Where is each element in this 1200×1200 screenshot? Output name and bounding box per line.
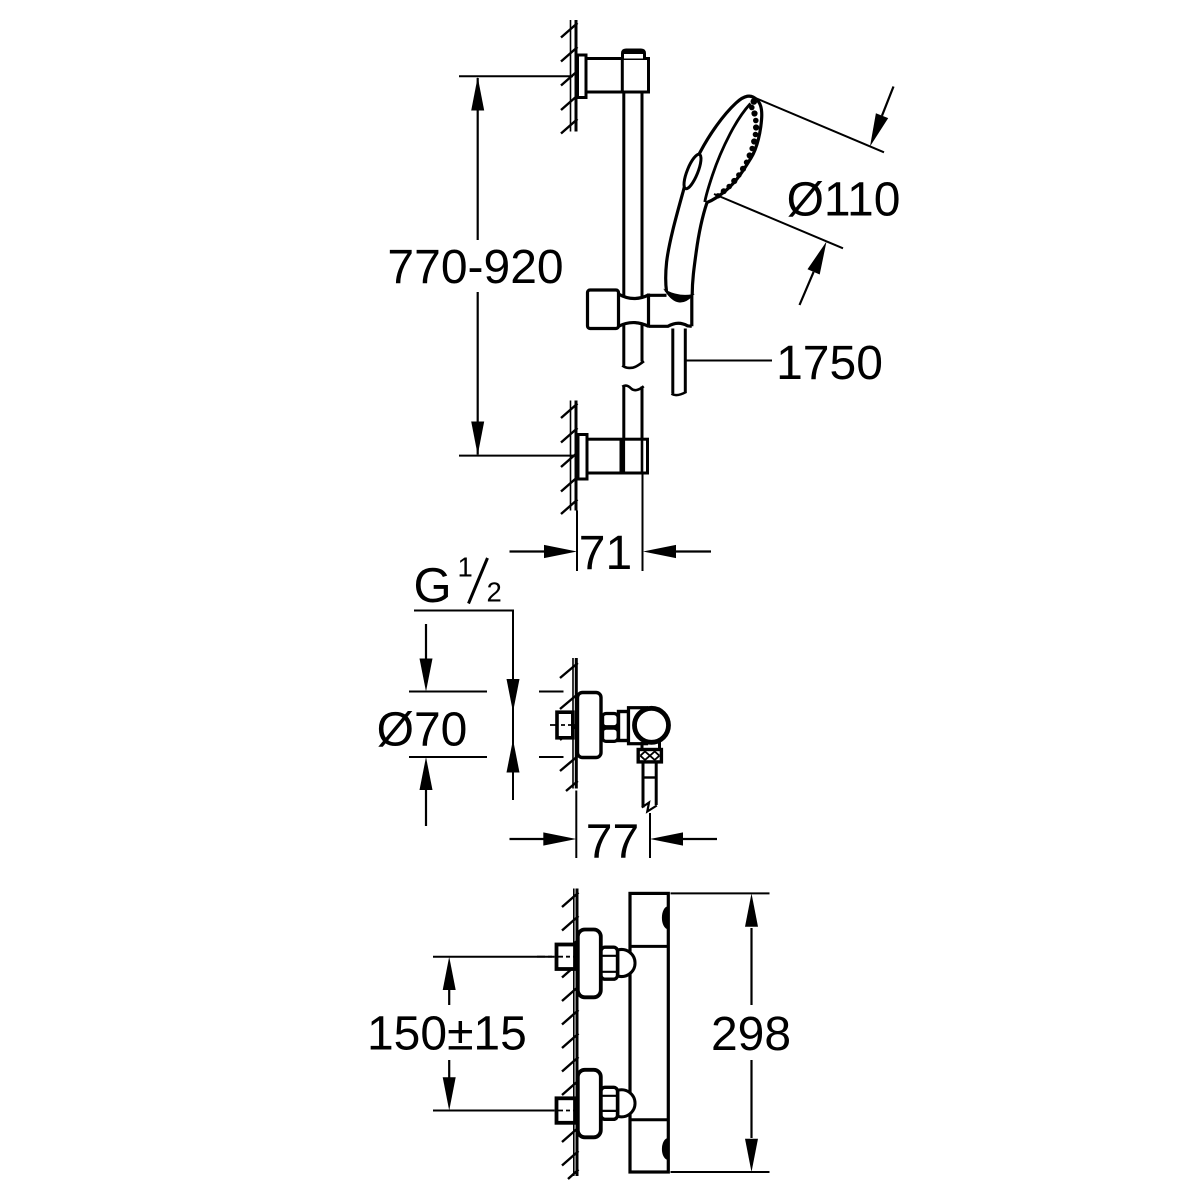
wall middle (thick line) <box>575 658 578 789</box>
rail upper wavy break <box>622 361 644 368</box>
dim D110: upper arrow <box>882 87 894 116</box>
dim 770-920: up arrow <box>471 77 484 111</box>
svg-text:71: 71 <box>579 527 632 580</box>
dim 770-920: dimension line <box>477 78 479 240</box>
dim 150+-15: dimension line <box>448 989 450 1005</box>
dim 770-920: bottom extension line <box>459 455 573 457</box>
dim D110: lower arrow <box>800 272 814 305</box>
top connection: escutcheon <box>578 930 601 998</box>
dim 770-920: top extension line <box>459 75 573 77</box>
dim 298: top extension line <box>671 892 770 894</box>
outlet nut with knurling <box>638 750 661 762</box>
holder: left block <box>588 290 619 329</box>
rail lower segment <box>622 387 625 440</box>
dim 770-920: down arrow <box>471 422 484 456</box>
supply nipple G1/2 in wall <box>557 712 573 738</box>
dim 150+-15: up arrow <box>443 957 456 990</box>
rail mount bottom: divider <box>620 439 623 473</box>
svg-text:77: 77 <box>586 816 639 869</box>
svg-text:298: 298 <box>711 1008 791 1061</box>
svg-text:1: 1 <box>458 552 473 583</box>
wall bottom hatching <box>562 893 579 1180</box>
top connection: supply square <box>557 945 576 970</box>
hose adapter <box>642 762 645 808</box>
escutcheon D70 <box>578 693 602 758</box>
dim 71: right arrow segment <box>674 550 711 552</box>
dim 298: down arrow <box>745 1139 758 1172</box>
union nut <box>602 714 618 727</box>
valve body <box>629 708 647 744</box>
G 1/2 up arrow <box>507 740 520 773</box>
dim 71: left arrow segment <box>510 550 547 552</box>
dim 77: left arrow segment <box>510 838 546 840</box>
wall top hatching <box>561 23 578 134</box>
body bottom-right crescent <box>663 1139 668 1159</box>
knob neck <box>641 742 644 750</box>
nipple centerline (dashed) <box>550 724 578 726</box>
wall middle hatching <box>560 663 578 791</box>
rail mount top: cap <box>623 50 645 59</box>
thermostat body <box>630 893 668 1172</box>
dim 77: right extension <box>649 813 651 858</box>
holder: right block <box>649 295 692 326</box>
svg-text:150±15: 150±15 <box>367 1008 527 1061</box>
rail upper segment <box>622 92 625 366</box>
hand shower: spray nozzles <box>715 98 759 198</box>
dim 150+-15: top extension line <box>433 956 555 958</box>
dim D70: bottom arrow line <box>425 789 427 826</box>
rail mount top: body <box>586 59 649 93</box>
hand shower: face inner rim line <box>705 104 751 203</box>
holder: divider <box>647 294 650 328</box>
hand shower: face outer edge and handle right edge <box>692 100 762 295</box>
rail mount bottom: body <box>587 439 648 473</box>
rail mount top: flange <box>578 55 587 98</box>
holder: handle cup crescent <box>666 291 692 301</box>
svg-text:1750: 1750 <box>776 337 883 390</box>
wall top (thick line) <box>575 20 578 132</box>
svg-text:Ø110: Ø110 <box>787 174 901 227</box>
top connection: centerline <box>537 956 578 958</box>
wall at bottom rail mount (thick line) <box>575 401 578 511</box>
leader G 1/2 <box>414 611 513 801</box>
rail mount bottom: flange <box>578 435 587 480</box>
bottom connection: supply square <box>557 1098 576 1123</box>
hose break <box>672 392 687 395</box>
bottom connection: escutcheon <box>578 1070 601 1138</box>
G 1/2 down arrow <box>507 679 520 712</box>
hand shower: mode button <box>681 152 705 190</box>
body top-right crescent <box>663 907 668 928</box>
rail mount top: divider <box>621 59 624 93</box>
dim 77: left extension <box>575 791 577 859</box>
svg-text:770-920: 770-920 <box>387 241 563 294</box>
hose adapter break <box>642 803 657 812</box>
dim 77: right arrow segment <box>681 838 717 840</box>
wall at bottom rail mount (thin line) <box>570 401 572 511</box>
dim 71: right extension <box>642 474 644 571</box>
valve connector <box>619 712 629 741</box>
svg-text:2: 2 <box>487 577 502 608</box>
wall bottom (thick line) <box>576 889 579 1177</box>
wall middle (thin line) <box>572 658 574 789</box>
shower hose <box>671 329 674 394</box>
holder: clamp white mask over rail <box>619 294 649 326</box>
top connection: dome <box>618 949 635 976</box>
wall bottom (thin line) <box>573 889 575 1177</box>
wall top (thin line) <box>570 20 572 132</box>
bottom connection: dome <box>618 1090 635 1117</box>
dim D110: extension line B <box>714 194 843 248</box>
body divider top <box>630 945 668 948</box>
dim D70: bottom extent line <box>409 756 487 758</box>
holder: clamp bottom arc <box>619 323 649 327</box>
wall bottom hatching <box>561 404 578 515</box>
leader 1750 <box>686 360 772 362</box>
svg-text:Ø70: Ø70 <box>377 704 468 757</box>
svg-text:G: G <box>414 559 452 613</box>
dim 150+-15: down arrow <box>443 1077 456 1110</box>
dim 298: dimension line <box>750 928 752 1005</box>
hand shower: back outline (head + handle left edge) <box>666 96 757 291</box>
body divider bottom <box>630 1118 668 1121</box>
dim D110: extension line A <box>753 97 884 152</box>
top connection: nut <box>601 947 618 979</box>
bottom connection: nut <box>601 1087 618 1119</box>
rail lower wavy break <box>622 386 643 391</box>
dim 298: up arrow <box>745 893 758 926</box>
dim 150+-15: bottom extension line <box>433 1110 555 1112</box>
dim D70: top arrow line <box>425 624 427 660</box>
dim 71: left extension <box>576 511 578 572</box>
valve knob (circle) <box>635 708 669 742</box>
holder: clamp top arc <box>619 294 649 299</box>
dim D70: top extent line <box>409 691 487 693</box>
bottom connection: centerline <box>537 1110 578 1112</box>
dim 298: bottom extension line <box>671 1171 770 1173</box>
rail passing through bottom mount <box>622 439 625 471</box>
